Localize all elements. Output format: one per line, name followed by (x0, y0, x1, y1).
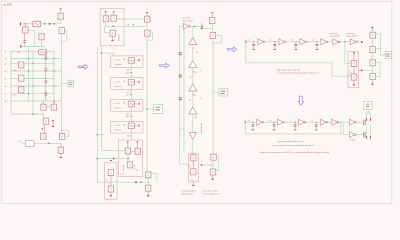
timer unit U5 (111, 121, 143, 133)
svg-text:a5: a5 (4, 79, 7, 81)
svg-text:2k: 2k (136, 170, 139, 172)
feedback wire (61, 130, 68, 137)
svg-text:a7: a7 (4, 94, 7, 96)
transistor Q11 (125, 148, 130, 154)
wire (46, 106, 51, 108)
transistor Q8 (103, 16, 108, 22)
transistor Q1 (25, 24, 27, 27)
inverter IC4c (300, 39, 307, 45)
pin (110, 160, 112, 161)
svg-text:a +TR: a +TR (114, 81, 120, 83)
inverter IC5d (321, 119, 328, 125)
bus stub (97, 134, 104, 136)
pin top (371, 27, 373, 28)
resistor R5 (25, 141, 34, 147)
pin label (193, 94, 194, 95)
junction J1 (49, 23, 51, 25)
bottom pin (353, 80, 355, 84)
net stub (245, 121, 246, 124)
svg-text:a +TR: a +TR (114, 125, 120, 127)
resistor R4 (19, 87, 24, 93)
transistor Q7 (60, 143, 62, 147)
net stub (245, 40, 246, 43)
svg-text:r7: r7 (290, 119, 293, 122)
svg-text:a8: a8 (4, 101, 7, 103)
wire (11, 113, 43, 115)
svg-text:[respon: [respon (115, 107, 123, 110)
transistor Q9 (111, 15, 116, 21)
block outline U8 (189, 153, 199, 182)
feed line left (178, 26, 180, 164)
transistor T up 3 (189, 84, 197, 91)
capacitor C1 (24, 33, 26, 40)
mid pin (353, 67, 355, 75)
wire (192, 114, 194, 132)
transistor Q3 (59, 28, 64, 34)
wire (28, 30, 35, 46)
block outline U9 (348, 52, 359, 88)
svg-text:multivibrator: multivibrator (200, 122, 203, 134)
resistor R2 (19, 62, 24, 68)
svg-text:a3: a3 (4, 63, 7, 65)
inverter cell IC2a (145, 16, 150, 22)
capacitor C5 (45, 93, 48, 96)
feed line right (183, 29, 185, 150)
top pin (353, 52, 355, 53)
svg-text:1k2: 1k2 (17, 52, 21, 54)
net label (202, 25, 203, 28)
wire (131, 129, 133, 135)
inverter IC4e (333, 39, 340, 45)
tap junction (344, 41, 346, 43)
svg-text:15: 15 (194, 95, 197, 97)
wire (110, 176, 112, 186)
block outline U6 (119, 140, 143, 177)
svg-text:works equally well: works equally well (203, 193, 220, 196)
long wire down (212, 39, 214, 155)
wire (131, 117, 133, 122)
svg-text:r8: r8 (311, 119, 314, 122)
wire out q (106, 25, 145, 27)
wire (192, 26, 194, 37)
pin (146, 12, 148, 13)
svg-text:4k7: 4k7 (13, 94, 17, 96)
svg-text:4b: 4b (191, 180, 194, 182)
feedback loop (216, 157, 219, 171)
wire out (191, 25, 202, 27)
pin (136, 141, 138, 142)
ladder rungs (10, 50, 54, 52)
transistor Q14 (146, 172, 151, 178)
wire (131, 95, 133, 100)
transistor Q6 (59, 133, 64, 139)
svg-text:inverting: inverting (182, 17, 191, 20)
feedback loop (147, 32, 153, 40)
svg-text:r3: r3 (291, 39, 294, 42)
resistor R7 (108, 186, 113, 192)
wire (212, 24, 214, 33)
svg-text:r1: r1 (249, 39, 252, 42)
timer unit U4 (111, 100, 143, 112)
wire (131, 64, 133, 69)
ground pin (147, 191, 149, 195)
unit feed wire (101, 53, 113, 56)
wire (105, 23, 110, 33)
svg-text:12: 12 (195, 116, 198, 118)
svg-text:and not authenticating propaga: and not authenticating propagation delay… (272, 144, 314, 147)
timer unit U2 (111, 56, 143, 68)
pin gnd (111, 36, 113, 40)
transistor Q21 (370, 47, 375, 53)
svg-text:super buffer: super buffer (346, 34, 357, 37)
loop wire (375, 63, 380, 77)
pin between (146, 22, 148, 30)
svg-text:r6: r6 (269, 119, 272, 122)
return loop (245, 122, 343, 134)
coupling cap Cc (179, 96, 182, 99)
ground pin (110, 192, 112, 195)
svg-text:+12 9b: +12 9b (125, 73, 132, 75)
svg-text:220: 220 (189, 163, 191, 167)
wire (61, 34, 63, 52)
svg-text:a6: a6 (4, 86, 7, 88)
block outline U7 (105, 163, 117, 199)
transistor Q18 (211, 154, 216, 160)
svg-text:Note tone generator in the NE5: Note tone generator in the NE555 is a co… (260, 151, 330, 154)
bus wire left (96, 47, 98, 183)
supply flag (147, 108, 153, 110)
svg-text:r2: r2 (270, 39, 273, 42)
pin label (193, 71, 194, 72)
diode D1 (43, 101, 45, 104)
feedback loop wire (62, 30, 67, 41)
wire (127, 154, 129, 162)
feedback loop (213, 35, 222, 43)
input wire (202, 164, 214, 166)
wire (212, 160, 214, 169)
ground pin (60, 153, 62, 157)
bus wire right (100, 47, 102, 151)
inverter IC4f (350, 39, 357, 45)
block outline U1 (100, 9, 124, 46)
pin (127, 141, 129, 142)
wire lower rail (21, 46, 45, 48)
svg-text:astable: astable (122, 163, 125, 171)
wire (60, 19, 62, 24)
transistor Q12 (135, 148, 140, 154)
net stub (20, 45, 21, 48)
svg-text:r4: r4 (312, 39, 315, 42)
supply flag VCC (62, 82, 69, 84)
capacitor C6 (52, 120, 54, 127)
flow arrow 2 (160, 63, 170, 68)
node (41, 128, 43, 130)
wire (192, 91, 194, 107)
diode D2 (53, 101, 55, 104)
wire (192, 45, 194, 61)
node dots on rail (25, 23, 27, 25)
node dots (28, 58, 30, 60)
long net wire down (146, 36, 148, 172)
wire (371, 53, 373, 60)
transistor Q2 (39, 34, 44, 40)
net stub left (20, 22, 21, 25)
supply pin (60, 8, 62, 9)
loop wire (151, 173, 157, 182)
input wire a (101, 149, 125, 151)
svg-text:2k2: 2k2 (350, 69, 352, 73)
svg-text:a +TR: a +TR (114, 60, 120, 62)
svg-text:+: + (136, 174, 138, 176)
capacitor C2 (45, 57, 48, 60)
coupling cap Ca (179, 51, 182, 54)
resistor R8 (191, 155, 196, 161)
svg-text:r5: r5 (248, 119, 251, 122)
svg-text:[respon: [respon (115, 85, 123, 88)
svg-text:a +TR: a +TR (114, 103, 120, 105)
pin (212, 175, 214, 179)
wire top rail (20, 23, 61, 25)
transistor Q22 (370, 60, 375, 66)
header loop wires (367, 113, 371, 119)
svg-text:1k: 1k (196, 52, 199, 54)
resistor R11 (351, 74, 356, 80)
resistor R1 (58, 13, 63, 19)
wire into block (179, 163, 188, 165)
flow arrow down (298, 96, 304, 105)
svg-text:a4: a4 (4, 71, 7, 73)
inverter IC5a (257, 119, 264, 125)
output wires (356, 121, 363, 123)
svg-text:2|: 2| (200, 70, 202, 72)
node (194, 25, 196, 27)
transistor Q16 (210, 18, 215, 24)
supply flag tap (213, 91, 219, 93)
svg-text:with npn pairs: with npn pairs (181, 193, 194, 196)
transistor T up 2 (189, 61, 197, 68)
main lower rail (97, 181, 149, 183)
ladder verticals (10, 51, 12, 114)
connector pins K1 (362, 120, 365, 125)
input wire b (97, 158, 128, 160)
transistor Q17 (210, 32, 215, 38)
return wire to lower block (246, 42, 352, 76)
svg-text:super buffer: super buffer (329, 34, 340, 37)
flow arrow 1 (79, 64, 89, 69)
tap wire (345, 42, 352, 64)
svg-text:a1: a1 (4, 51, 7, 53)
inverter IC3a (179, 25, 183, 27)
supply flag (367, 110, 369, 114)
transistor T down (189, 133, 196, 140)
junction (113, 158, 115, 160)
bottom rail (21, 142, 61, 144)
branch vertical (340, 122, 342, 134)
transformer T1 (33, 21, 41, 26)
input wire (200, 28, 213, 30)
svg-text:a2: a2 (4, 59, 7, 61)
transistor Q4 (43, 114, 45, 118)
capacitor C3 (45, 68, 48, 71)
wire (371, 38, 373, 46)
transistor stack Q20 (370, 32, 375, 38)
wire (131, 73, 133, 78)
svg-text:note npn version: note npn version (203, 189, 219, 192)
cap rail stubs (45, 51, 47, 101)
svg-text:24|: 24| (189, 77, 192, 79)
svg-text:[respon: [respon (115, 129, 123, 132)
transformer T2 (39, 49, 47, 54)
svg-text:and not authenticating propaga: and not authenticating propagation delay… (277, 72, 320, 75)
transistor T up 4 (189, 107, 197, 114)
wire (192, 161, 194, 169)
svg-text:+ t: + t (193, 47, 196, 50)
inverter IC4a (258, 39, 265, 45)
transistor Q13 (127, 162, 132, 168)
wire (371, 66, 373, 74)
wire (131, 86, 133, 92)
svg-text:+12 9b: +12 9b (125, 94, 132, 96)
transistor below (145, 30, 150, 36)
transistor T up 1 (189, 38, 197, 45)
timer unit U3 (111, 78, 143, 90)
junction (135, 181, 137, 183)
flow arrow 3 (227, 47, 237, 52)
resistor R9 (191, 169, 196, 175)
inverter IC5f (343, 121, 349, 123)
svg-text:ne 555: ne 555 (3, 2, 12, 6)
inverter IC5g (343, 134, 349, 136)
inverter IC5b (278, 119, 285, 125)
svg-text:[respon: [respon (115, 63, 123, 66)
transistor Q19 (210, 169, 215, 175)
svg-text:super buffer: super buffer (182, 19, 193, 22)
svg-text:|7|: |7| (189, 100, 192, 102)
resistor R6 (108, 170, 113, 176)
main wire (246, 41, 350, 43)
wire (131, 135, 133, 140)
wire (147, 178, 149, 185)
svg-text:easy equivalent: easy equivalent (181, 189, 196, 192)
svg-text:logic equivalent only, and: logic equivalent only, and (277, 69, 301, 72)
transistor Q5 (43, 124, 45, 133)
inverter IC5c (299, 119, 306, 125)
ground pin (371, 80, 373, 84)
resistor R10 (351, 61, 356, 67)
inverter IC4b (279, 39, 286, 45)
wire (131, 107, 133, 113)
svg-text:+12 9b: +12 9b (125, 116, 132, 118)
connector pins K2 (362, 132, 365, 137)
output wire (359, 69, 373, 71)
main wire (245, 121, 349, 123)
wire (133, 165, 135, 170)
loop wire (375, 34, 380, 49)
svg-text:logic equivalent only, but not: logic equivalent only, but not (278, 140, 304, 143)
svg-text:+5qb: +5qb (350, 139, 356, 141)
svg-text:1k 4: 1k 4 (120, 173, 125, 175)
wire (192, 140, 194, 155)
output stub (357, 41, 361, 43)
wire (192, 68, 194, 84)
transistor Q10 (110, 30, 115, 36)
resistor R3 (19, 75, 24, 81)
coupling cap Cb (179, 74, 182, 77)
pin (192, 182, 194, 185)
svg-text:18: 18 (194, 72, 197, 74)
capacitor C4 (45, 81, 48, 84)
inverter IC4d (321, 39, 328, 45)
transistor Q15 (146, 185, 151, 191)
svg-text:bistable: bistable (117, 33, 120, 41)
link wire (179, 128, 184, 130)
pin (211, 12, 213, 13)
supply flag (381, 48, 386, 55)
svg-text:out: out (19, 140, 22, 143)
svg-text:2|: 2| (200, 98, 202, 100)
wire (131, 151, 135, 153)
transistor Q23 (370, 74, 375, 80)
header pin marks (366, 118, 367, 121)
pin (105, 11, 107, 12)
inverter IC5e (332, 119, 339, 125)
wire (41, 40, 43, 47)
pin (113, 11, 115, 12)
wire out q2 (116, 18, 144, 20)
svg-text:4 R: 4 R (126, 24, 130, 26)
